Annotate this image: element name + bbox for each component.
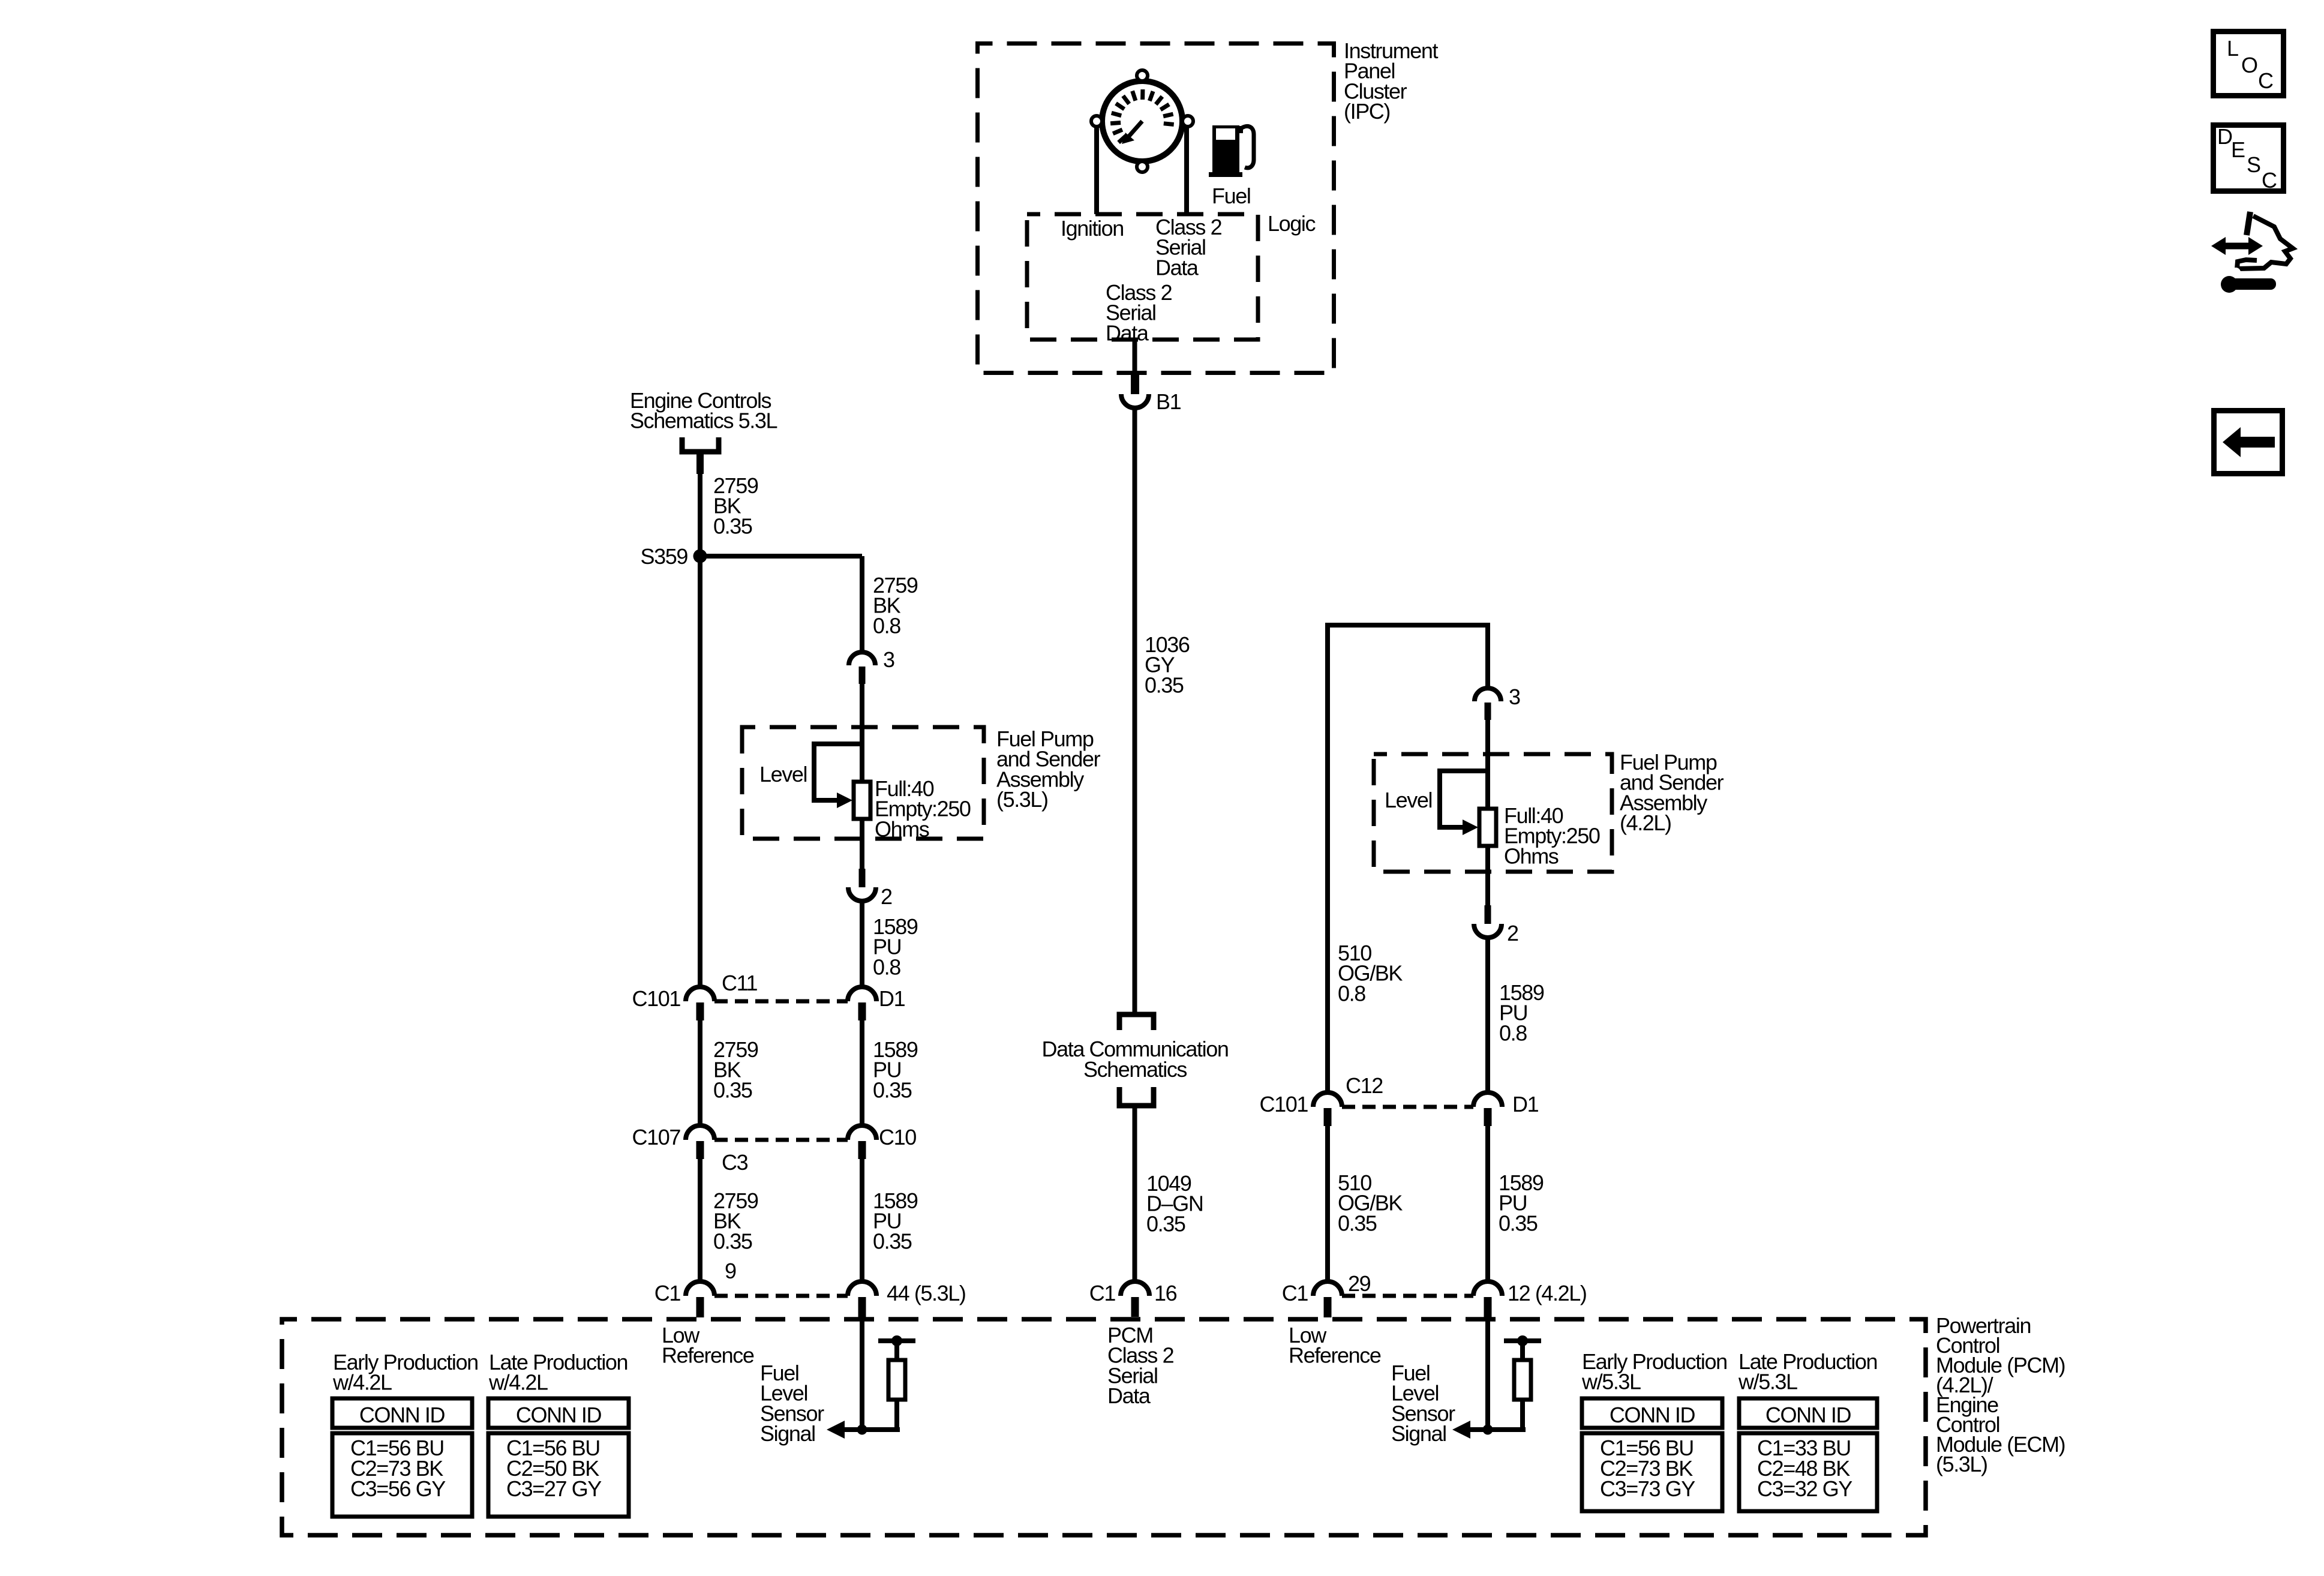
svg-text:C: C (2262, 168, 2277, 193)
svg-text:D: D (2217, 124, 2232, 149)
svg-text:S: S (2247, 152, 2260, 177)
svg-text:3: 3 (1509, 685, 1520, 709)
svg-text:C3=73 GY: C3=73 GY (1600, 1476, 1695, 1501)
svg-text:C11: C11 (722, 971, 758, 995)
svg-text:Data: Data (1107, 1383, 1151, 1408)
svg-text:C3=32 GY: C3=32 GY (1757, 1476, 1852, 1501)
svg-text:Ignition: Ignition (1061, 216, 1124, 241)
svg-text:w/4.2L: w/4.2L (332, 1370, 392, 1395)
svg-text:16: 16 (1154, 1281, 1177, 1305)
svg-text:C3: C3 (722, 1150, 748, 1175)
svg-text:Reference: Reference (1289, 1343, 1381, 1368)
svg-text:C: C (2258, 68, 2273, 93)
svg-text:C107: C107 (632, 1125, 681, 1149)
svg-text:0.8: 0.8 (1338, 981, 1365, 1005)
svg-text:12 (4.2L): 12 (4.2L) (1508, 1281, 1587, 1305)
svg-text:D1: D1 (1512, 1092, 1539, 1116)
svg-text:0.35: 0.35 (1338, 1211, 1377, 1235)
svg-text:Ohms: Ohms (875, 816, 929, 841)
svg-text:29: 29 (1348, 1271, 1371, 1296)
svg-text:(5.3L): (5.3L) (996, 787, 1048, 812)
svg-text:0.35: 0.35 (713, 1229, 752, 1253)
svg-text:C1: C1 (1089, 1281, 1116, 1305)
svg-text:w/4.2L: w/4.2L (488, 1370, 548, 1395)
svg-text:Reference: Reference (662, 1343, 754, 1368)
svg-text:Level: Level (759, 762, 807, 787)
svg-text:0.35: 0.35 (873, 1229, 912, 1253)
svg-text:Signal: Signal (760, 1421, 815, 1446)
svg-text:0.8: 0.8 (873, 613, 900, 638)
svg-text:Level: Level (1385, 788, 1432, 812)
svg-text:C12: C12 (1346, 1073, 1383, 1098)
svg-text:(4.2L): (4.2L) (1620, 810, 1671, 835)
svg-text:C101: C101 (632, 986, 681, 1011)
svg-text:Data: Data (1155, 255, 1199, 280)
svg-text:Data: Data (1106, 320, 1149, 345)
svg-text:0.8: 0.8 (873, 954, 900, 979)
svg-text:CONN ID: CONN ID (359, 1403, 445, 1427)
svg-text:(5.3L): (5.3L) (1936, 1452, 1987, 1476)
svg-text:CONN ID: CONN ID (1610, 1403, 1695, 1427)
svg-text:Fuel: Fuel (1212, 184, 1250, 208)
svg-text:0.8: 0.8 (1499, 1020, 1527, 1045)
svg-text:E: E (2231, 137, 2245, 162)
svg-text:C101: C101 (1260, 1092, 1308, 1116)
svg-text:3: 3 (883, 647, 894, 672)
svg-text:0.35: 0.35 (873, 1077, 912, 1102)
svg-text:CONN ID: CONN ID (516, 1403, 602, 1427)
svg-text:C3=56 GY: C3=56 GY (350, 1476, 446, 1501)
svg-text:CONN ID: CONN ID (1765, 1403, 1851, 1427)
svg-text:Signal: Signal (1391, 1421, 1446, 1446)
svg-text:0.35: 0.35 (713, 1077, 752, 1102)
svg-text:C1: C1 (1282, 1281, 1308, 1305)
svg-text:2: 2 (1507, 921, 1518, 945)
svg-text:O: O (2241, 53, 2257, 77)
svg-text:Schematics 5.3L: Schematics 5.3L (630, 409, 777, 433)
svg-text:9: 9 (725, 1259, 736, 1283)
svg-text:w/5.3L: w/5.3L (1738, 1370, 1797, 1394)
svg-text:0.35: 0.35 (1499, 1211, 1538, 1235)
svg-text:B1: B1 (1156, 389, 1181, 414)
svg-text:C10: C10 (879, 1125, 916, 1149)
svg-text:0.35: 0.35 (1145, 673, 1184, 697)
svg-text:44 (5.3L): 44 (5.3L) (887, 1281, 966, 1305)
svg-text:L: L (2227, 36, 2238, 61)
svg-text:w/5.3L: w/5.3L (1581, 1370, 1641, 1394)
svg-text:Logic: Logic (1268, 211, 1316, 236)
svg-text:Schematics: Schematics (1083, 1057, 1187, 1082)
svg-text:2: 2 (881, 884, 892, 909)
svg-text:C1: C1 (654, 1281, 681, 1305)
svg-text:0.35: 0.35 (1146, 1211, 1185, 1236)
svg-text:0.35: 0.35 (713, 514, 752, 538)
svg-text:(IPC): (IPC) (1344, 99, 1390, 124)
svg-text:C3=27 GY: C3=27 GY (506, 1476, 602, 1501)
svg-text:Ohms: Ohms (1504, 843, 1559, 868)
svg-text:D1: D1 (879, 986, 905, 1011)
svg-text:S359: S359 (641, 544, 688, 569)
